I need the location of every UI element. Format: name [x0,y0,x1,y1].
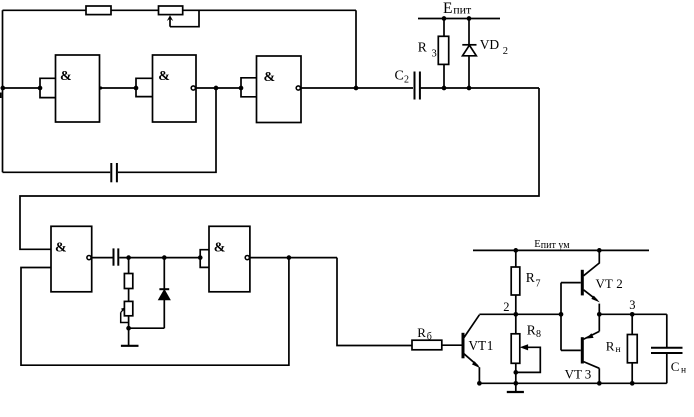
label Rn [606,339,621,356]
wire feedback bottom left [3,171,111,173]
label VT1 [469,338,494,353]
wire right drop to gate3 output [355,10,357,88]
svg-text:&: & [60,69,72,84]
wire left rail [2,10,4,172]
svg-text:пит: пит [453,3,472,17]
resistor R1 (top, unlabeled) [86,6,111,15]
label node 2 [503,300,509,314]
inversion bubble gate3 output [296,86,300,90]
inversion bubble gate5 output [245,256,249,260]
power rail Epit um [473,249,649,251]
svg-text:&: & [214,240,226,255]
label VD2 [480,37,508,57]
label R8 [527,323,541,341]
svg-text:C: C [395,69,404,84]
node junction gate2 bracket [134,86,139,91]
wire Rb to VT1 base [442,344,462,346]
node junction rail / Rn [630,381,635,386]
wire gate5 output corner to Rb [337,258,414,346]
svg-text:8: 8 [536,329,541,340]
logic gate DD1.1 (&) [56,55,100,122]
resistor Rb [412,340,442,350]
svg-text:Е: Е [534,239,540,250]
node junction diode top [162,255,167,260]
node junction rail / VT3 collector [597,381,602,386]
svg-text:б: б [427,332,432,343]
svg-text:н: н [616,345,621,355]
svg-text:VT: VT [596,276,613,291]
label Epit um [534,239,570,251]
node junction R8 / ground rail [513,381,518,386]
svg-text:2: 2 [404,75,409,86]
wire bottom ground rail [479,382,666,384]
node junction rail / R7 [513,248,518,253]
transistor VT1 [462,315,481,384]
capacitor C1 (feedback, unlabeled) [111,163,117,182]
wire diode bottom link [129,327,165,329]
potentiometer R2 (top, unlabeled) [159,6,183,27]
label C2 [395,69,410,86]
node junction left rail / gate1 input [0,86,5,98]
wire gate3 input tie bracket [241,78,257,97]
wire gate1 input tie bracket [40,78,56,97]
svg-text:пит ум: пит ум [541,240,570,251]
svg-text:3: 3 [629,298,635,312]
svg-text:Е: Е [443,0,452,17]
node junction top-line drop [354,86,359,91]
node junction pot bottom [126,326,131,331]
svg-text:2: 2 [503,300,509,314]
wire VT2/VT3 base rail [560,283,562,351]
wire node 3 horizontal [599,313,667,315]
capacitor C2 [415,72,420,100]
wire node 2 horizontal [479,313,561,315]
svg-text:R: R [526,270,535,285]
wire gate5 input tie bracket [200,250,209,268]
inversion bubble gate4 output [87,256,91,260]
wire top line left [3,9,87,11]
resistor R4 (unlabeled) [124,258,132,289]
power rail Epit [418,18,500,20]
node junction rail / VT1 emitter [477,381,482,386]
svg-text:VD: VD [480,37,500,52]
svg-text:R: R [417,325,426,340]
node junction gate1 bracket [38,86,43,91]
label VT3 [565,367,592,382]
label R7 [526,270,541,290]
svg-text:&: & [158,69,170,84]
svg-text:2: 2 [616,276,623,291]
node junction rail / R3 [442,16,447,21]
capacitor C3 (coupling, unlabeled) [114,248,119,265]
wire long link right-down-left [20,88,539,249]
svg-text:С: С [671,359,680,374]
potentiometer R8 [511,314,540,383]
svg-text:R: R [418,40,427,55]
node junction gate3 bracket [239,86,244,91]
wire feedback bottom right [118,88,216,172]
svg-text:2: 2 [503,46,508,57]
wire potentiometer wiper loop [170,10,199,26]
wire gate1 input [3,87,41,89]
wire C2 to right corner [421,87,539,89]
transistor VT3 [561,314,599,383]
svg-text:VT: VT [565,367,582,382]
node junction rail / VT2 collector [597,248,602,253]
svg-text:7: 7 [536,279,541,290]
diode VD1 (unlabeled) [159,258,169,329]
potentiometer R5 (unlabeled) [121,289,133,345]
label Cn [671,359,686,376]
node junction node2 / R7 R8 [513,312,518,317]
diode VD2 [462,19,476,89]
wire bottom feedback loop [21,258,289,366]
logic gate DD1.2 (&) [153,55,197,122]
node junction R3 bottom [442,86,447,91]
svg-text:&: & [264,70,276,85]
node junction R8 wiper [513,370,518,375]
inversion bubble gate2 output [191,86,195,90]
resistor R3 [438,19,448,89]
node junction feedback tap [214,86,219,91]
label Epit [443,0,472,17]
svg-text:R: R [527,323,536,338]
wire gate4 output to cap [92,257,113,259]
node junction node3 / Rn [630,312,635,317]
wire top line right [183,9,356,11]
logic gate DD1.3 (&) [257,56,302,123]
node junction gate5 output / feedback [287,255,292,260]
node junction RC chain top [126,255,131,260]
node junction node3 / VT2 emitter [597,312,602,317]
ground (bottom-left) [121,344,139,346]
wire gate3 output to C2 [301,87,413,89]
wire top line mid [111,9,159,11]
resistor R7 [511,250,520,314]
resistor Rn [627,314,637,383]
wire gate5 output [250,257,337,259]
label node 3 [629,298,635,312]
wire gate2 input tie bracket [136,78,153,96]
svg-text:R: R [606,339,615,354]
svg-text:&: & [55,240,67,255]
node junction node2 / base rail [559,312,564,317]
node junction VD2 bottom [467,86,472,91]
ground (amplifier) [507,383,524,392]
node junction gate5 bracket [198,255,203,260]
svg-text:1: 1 [487,338,494,353]
wire cap to gate5 bracket [119,257,200,259]
transistor VT2 [561,250,600,314]
svg-text:н: н [681,366,686,376]
capacitor Cn [651,314,683,383]
logic gate DD2.1 (&) [51,226,92,291]
label Rb [417,325,432,343]
label R3 [418,40,437,60]
node junction rail / VD2 [467,16,472,21]
label VT2 [596,276,623,291]
svg-text:3: 3 [432,49,437,60]
svg-text:VT: VT [469,338,487,353]
wire gate2 output to gate3 [196,87,241,89]
wire gate1 output to gate2 [99,86,136,89]
logic gate DD2.2 (&) [209,226,250,291]
svg-text:3: 3 [585,367,592,382]
